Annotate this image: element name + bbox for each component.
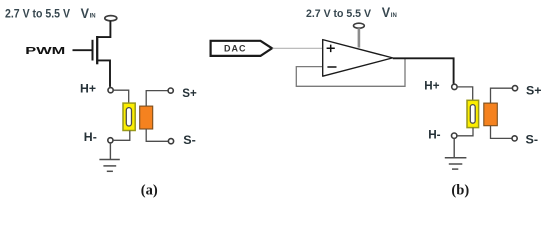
- ground (a): [99, 160, 119, 172]
- wire H+ to heater top (b): [457, 87, 472, 101]
- wire DAC to noninverting input: [273, 47, 323, 49]
- transistor Q1: [93, 36, 111, 87]
- svg-text:V: V: [382, 4, 391, 20]
- wire sensor top to S+ (a): [146, 91, 168, 106]
- terminal S- (a): [168, 139, 173, 144]
- Vin label (a): [81, 5, 96, 21]
- svg-text:H-: H-: [428, 128, 440, 142]
- svg-text:(a): (a): [141, 183, 158, 199]
- heater element (a): [123, 103, 135, 130]
- svg-text:2.7 V to 5.5 V: 2.7 V to 5.5 V: [306, 8, 371, 20]
- wire Vin to source: [97, 21, 110, 37]
- svg-text:2.7 V to 5.5 V: 2.7 V to 5.5 V: [5, 7, 70, 21]
- feedback wire (b): [296, 58, 405, 86]
- op-amp U1: [323, 40, 393, 77]
- svg-text:S+: S+: [526, 83, 542, 97]
- wire H- to ground (a): [109, 143, 111, 159]
- DAC block: [211, 41, 272, 56]
- svg-text:V: V: [81, 5, 90, 21]
- svg-text:(b): (b): [451, 183, 469, 199]
- wire H- to heater bottom (b): [457, 128, 473, 136]
- svg-text:S+: S+: [182, 86, 197, 100]
- wire sensor bottom to S- (b): [491, 126, 512, 139]
- output wire to H+ (b): [393, 58, 454, 84]
- sensor element (b): [484, 103, 498, 126]
- terminal S+ (a): [168, 88, 173, 93]
- wire sensor bottom to S- (a): [146, 129, 168, 141]
- Vin terminal (a): [105, 16, 117, 21]
- wire H+ to heater top (a): [113, 90, 128, 103]
- ground (b): [445, 158, 467, 169]
- node H- (b): [452, 133, 457, 138]
- wire H- to ground (b): [453, 138, 455, 157]
- svg-text:IN: IN: [90, 13, 96, 19]
- heater element (b): [467, 100, 479, 127]
- svg-text:H+: H+: [424, 79, 439, 93]
- terminal S+ (b): [512, 86, 517, 91]
- svg-text:H+: H+: [80, 83, 96, 95]
- supply wire to op-amp (b): [358, 28, 361, 47]
- svg-text:PWM: PWM: [25, 45, 65, 57]
- wire PWM to gate: [73, 49, 92, 51]
- node H- (a): [108, 138, 113, 143]
- node H+ (b): [452, 84, 457, 89]
- svg-text:H-: H-: [84, 132, 97, 144]
- svg-text:S-: S-: [183, 133, 196, 147]
- node H+ (a): [108, 88, 113, 93]
- Vin terminal (b): [354, 23, 365, 28]
- svg-text:IN: IN: [391, 13, 397, 19]
- wire sensor top to S+ (b): [491, 88, 513, 103]
- svg-text:S-: S-: [526, 132, 539, 146]
- svg-text:DAC: DAC: [224, 44, 247, 54]
- Vin label (b): [382, 4, 397, 20]
- terminal S- (b): [512, 136, 517, 141]
- sensor element (a): [140, 106, 153, 129]
- wire H- to heater bottom (a): [113, 131, 130, 141]
